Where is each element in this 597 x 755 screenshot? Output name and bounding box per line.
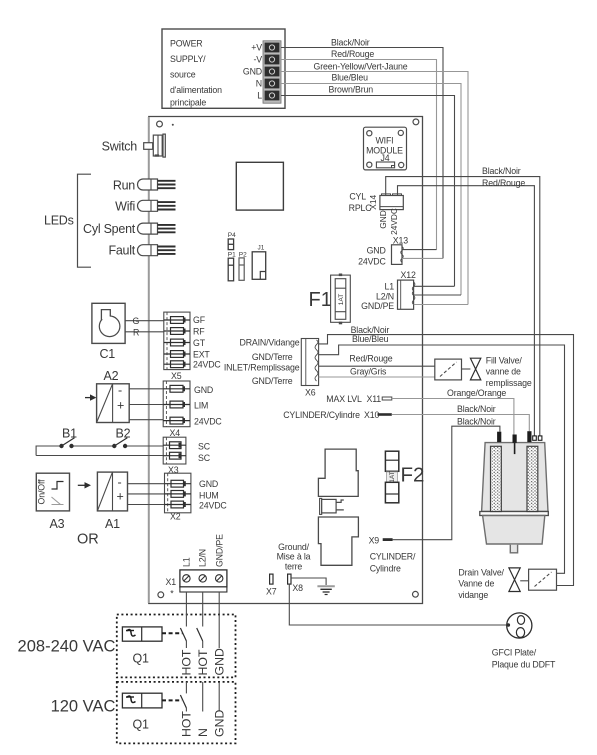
svg-text:Drain Valve/: Drain Valve/ [458,567,504,577]
svg-text:B2: B2 [116,427,131,441]
svg-text:24VDC: 24VDC [199,501,227,511]
wire GND Green-Yellow [281,72,468,305]
X1 screw GND/PE [216,575,223,582]
PS terminal block GND [265,67,280,77]
ground symbol [317,585,334,587]
spade terminal 2 [538,436,542,440]
svg-text:EXT: EXT [193,349,210,359]
svg-text:X7: X7 [266,586,277,596]
cylinder drain tab [510,545,517,553]
svg-text:24VDC: 24VDC [193,360,221,370]
PS terminal block L [265,91,280,101]
svg-text:Q1: Q1 [133,718,149,732]
svg-text:L2/N: L2/N [376,292,394,302]
svg-text:GND/PE: GND/PE [361,301,394,311]
mounting hole top-right [413,119,419,125]
X1 screw L1 [183,575,190,582]
cylinder lower bowl [483,516,545,545]
right electrode pin [527,431,531,442]
mounting hole bottom-right [413,591,419,597]
svg-text:Blue/Bleu: Blue/Bleu [352,334,389,344]
svg-text:source: source [170,70,196,80]
mounting hole bottom-left [158,592,164,598]
svg-text:X1: X1 [166,577,177,587]
svg-text:LEDs: LEDs [44,214,74,228]
svg-text:L1: L1 [385,281,395,291]
svg-text:+: + [117,490,124,504]
svg-text:RF: RF [193,326,205,336]
mounting hole top-left [157,121,163,127]
svg-text:GND/Terre: GND/Terre [252,352,293,362]
svg-text:P4: P4 [228,232,236,239]
fuse F2 [385,451,398,471]
relay K3 (lower heatsink shape) [318,517,358,565]
wire X12 L2/N [414,294,461,296]
PS terminal block -V [265,55,280,65]
svg-text:Ground/: Ground/ [278,542,309,552]
svg-text:GND/Terre: GND/Terre [252,376,293,386]
PS terminal block +V [265,43,280,53]
breaker box 208-240 [117,615,236,678]
WIFI module U2 [364,127,407,170]
relay K2 small with pins [320,498,322,514]
svg-text:Black/Noir: Black/Noir [457,417,496,427]
wire L Brown/Brun [281,96,455,287]
svg-text:X10: X10 [364,410,379,420]
svg-text:CYLINDER/Cylindre: CYLINDER/Cylindre [283,410,360,420]
breaker Q1b [122,693,162,708]
X1 screw L2/N [199,575,206,582]
svg-text:terre: terre [285,561,303,571]
svg-text:SC: SC [198,453,211,463]
svg-text:+: + [117,399,124,413]
svg-text:Blue/Bleu: Blue/Bleu [332,73,369,83]
svg-text:A3: A3 [50,517,65,531]
svg-text:B1: B1 [62,427,77,441]
svg-text:-: - [118,476,122,490]
svg-text:C1: C1 [100,347,116,361]
svg-text:-V: -V [254,55,263,65]
wire X6 Gray/Gris to fill solenoid [319,376,435,378]
svg-text:GND/PE: GND/PE [214,534,224,567]
svg-text:Wifi: Wifi [115,200,135,214]
svg-text:120 VAC: 120 VAC [51,698,116,716]
wire X6 inlet Red/Rouge to fill solenoid [319,365,435,367]
breaker box 120 [117,682,236,744]
J4 connector [376,162,394,168]
wire C1 R [125,331,164,333]
svg-text:Cyl Spent: Cyl Spent [83,222,136,236]
svg-text:N: N [196,728,210,737]
svg-text:N: N [256,79,262,89]
GFCI plate [507,613,532,638]
wires A1 to X2 [128,484,165,505]
svg-text:GND: GND [243,67,262,77]
svg-text:Mise à la: Mise à la [277,552,311,562]
power supply PS1 box [162,29,285,108]
wire X11 Orange/Orange [392,399,514,435]
PS terminal block N [265,79,280,89]
main PCB board outline [149,117,423,604]
wire X9 Black/Noir to left electrode [393,426,500,540]
svg-text:vidange: vidange [458,590,488,600]
svg-text:1AT: 1AT [389,471,396,482]
svg-text:X14: X14 [368,195,378,210]
svg-text:A1: A1 [105,517,120,531]
svg-text:1AT: 1AT [338,294,345,305]
svg-text:principale: principale [170,98,206,108]
svg-text:Red/Rouge: Red/Rouge [349,354,392,364]
connector X8 [288,574,291,584]
left electrode pin [497,432,501,442]
svg-text:Black/Noir: Black/Noir [331,38,370,48]
svg-text:Q1: Q1 [133,652,149,666]
svg-text:G: G [133,316,140,326]
spade terminal 1 [533,436,537,440]
PS terminal strip body [263,41,281,103]
wire X14 pin2 Red/Rouge to cylinder spade [398,186,535,436]
svg-text:OR: OR [77,532,99,548]
svg-text:Green-Yellow/Vert-Jaune: Green-Yellow/Vert-Jaune [314,62,408,72]
svg-text:X8: X8 [292,583,303,593]
steam cylinder body [482,443,548,512]
IC U1 square [236,162,283,210]
drain valve body [509,568,520,592]
svg-text:GND: GND [213,648,227,675]
wire X6 drain Black/Noir to drain solenoid [319,335,574,586]
wire C1 G [125,320,164,322]
LEDs bracket [78,174,92,267]
svg-text:Fault: Fault [108,244,135,258]
sensor pin [513,435,517,443]
svg-text:X11: X11 [367,394,382,404]
svg-text:HUM: HUM [199,490,219,500]
svg-text:GT: GT [193,338,206,348]
B2 contacts [112,444,116,448]
svg-text:HOT: HOT [180,649,194,675]
svg-text:Red/Rouge: Red/Rouge [331,49,374,59]
svg-text:Vanne de: Vanne de [458,578,494,588]
fill valve solenoid [435,359,462,380]
wire X13 pin1 [402,249,437,251]
wire X10 Black/Noir [392,415,530,432]
svg-text:A2: A2 [104,369,119,383]
svg-text:LIM: LIM [194,400,208,410]
connector X7 [270,574,273,584]
svg-text:J1: J1 [258,245,265,252]
connector X4 [163,381,190,427]
svg-text:WIFI: WIFI [376,136,394,146]
svg-text:SUPPLY/: SUPPLY/ [170,54,206,64]
right electrode plate [527,446,538,511]
breaker Q1a [122,627,162,641]
pole GND2 [218,682,220,712]
svg-text:208-240 VAC: 208-240 VAC [18,638,116,656]
wire SC loop top [36,446,163,456]
arrow into A2 [85,397,91,399]
svg-text:L: L [257,91,262,101]
wire X12 L1 [414,285,455,287]
svg-text:Plaque du DDFT: Plaque du DDFT [492,659,556,669]
left electrode plate [491,446,502,511]
svg-text:GND: GND [199,479,218,489]
svg-text:L2/N: L2/N [198,549,208,567]
svg-text:SC: SC [198,441,211,451]
svg-text:Orange/Orange: Orange/Orange [447,388,506,398]
wire X13 pin2 [402,257,443,259]
wire X8 to ground [291,578,326,585]
svg-text:24VDC: 24VDC [389,208,399,235]
svg-text:Gray/Gris: Gray/Gris [350,367,387,377]
svg-text:-: - [118,384,122,398]
B1 contacts [59,444,63,448]
wire -V Red/Rouge [281,60,437,250]
svg-text:F1: F1 [309,289,332,311]
svg-text:X5: X5 [171,371,182,381]
svg-text:DRAIN/Vidange: DRAIN/Vidange [240,337,300,347]
svg-text:On/Off: On/Off [37,479,47,505]
connector X5 [164,312,190,370]
connector X3 [163,437,186,464]
arrow A3 to A1 [78,484,85,486]
svg-text:Red/Rouge: Red/Rouge [482,178,525,188]
wires A2 to X4 [129,389,163,420]
svg-text:X9: X9 [369,535,380,545]
svg-text:R: R [133,327,139,337]
svg-text:L1: L1 [181,557,191,567]
pole HOT1 [185,592,187,627]
connector X2 [165,473,191,513]
svg-text:Brown/Brun: Brown/Brun [329,85,374,95]
connector X6 [301,339,318,386]
svg-text:X2: X2 [170,512,181,522]
svg-text:GF: GF [193,315,206,325]
svg-text:Black/Noir: Black/Noir [482,166,521,176]
svg-text:GFCI Plate/: GFCI Plate/ [492,648,537,658]
svg-text:24VDC: 24VDC [194,416,222,426]
relay K1 (upper heatsink shape) [318,449,358,496]
svg-text:Black/Noir: Black/Noir [457,404,496,414]
svg-text:remplissage: remplissage [486,378,532,388]
svg-text:d'alimentation: d'alimentation [170,85,222,95]
svg-text:GND: GND [194,385,213,395]
drain valve solenoid [529,569,557,590]
wire X6 Blue/Bleu to drain solenoid [319,345,565,573]
svg-text:GND: GND [367,245,386,255]
svg-text:HOT: HOT [196,649,210,675]
svg-text:X13: X13 [393,236,408,246]
svg-text:Cylindre: Cylindre [370,564,401,574]
wire X8 to GFCI [289,584,507,625]
cylinder flange [480,512,549,516]
svg-text:vanne de: vanne de [486,367,521,377]
pole HOT [185,682,187,694]
svg-text:GND: GND [378,210,388,228]
svg-text:X4: X4 [170,428,181,438]
sensor A1 [97,472,127,511]
svg-text:INLET/Remplissage: INLET/Remplissage [224,363,300,373]
svg-text:Run: Run [113,179,135,193]
svg-text:POWER: POWER [170,39,202,49]
wire X12 GND/PE [414,304,468,306]
svg-text:MAX LVL: MAX LVL [326,394,362,404]
svg-text:CYL: CYL [349,192,366,202]
fill valve body [462,368,471,370]
svg-text:24VDC: 24VDC [358,256,386,266]
fan C1 [92,303,125,343]
wire N Blue/Bleu [281,84,461,296]
wire +V Black/Noir [281,48,443,259]
svg-text:X12: X12 [401,270,416,280]
svg-text:F2: F2 [401,464,425,487]
svg-text:X6: X6 [305,387,316,397]
svg-text:Switch: Switch [102,140,138,154]
pole N [202,682,204,712]
wire SC loop bottom [36,455,163,457]
svg-text:+V: +V [251,43,262,53]
pole HOT2 [202,592,204,627]
pole GND [218,592,220,648]
small dot [172,124,174,126]
wire X14 pin1 Black/Noir to cylinder spade [386,177,540,436]
svg-text:GND: GND [213,710,227,737]
svg-text:Fill Valve/: Fill Valve/ [486,356,523,366]
switch A3 [36,473,69,511]
svg-text:HOT: HOT [180,711,194,737]
svg-text:CYLINDER/: CYLINDER/ [370,552,416,562]
board left edge (gray) [148,117,150,603]
